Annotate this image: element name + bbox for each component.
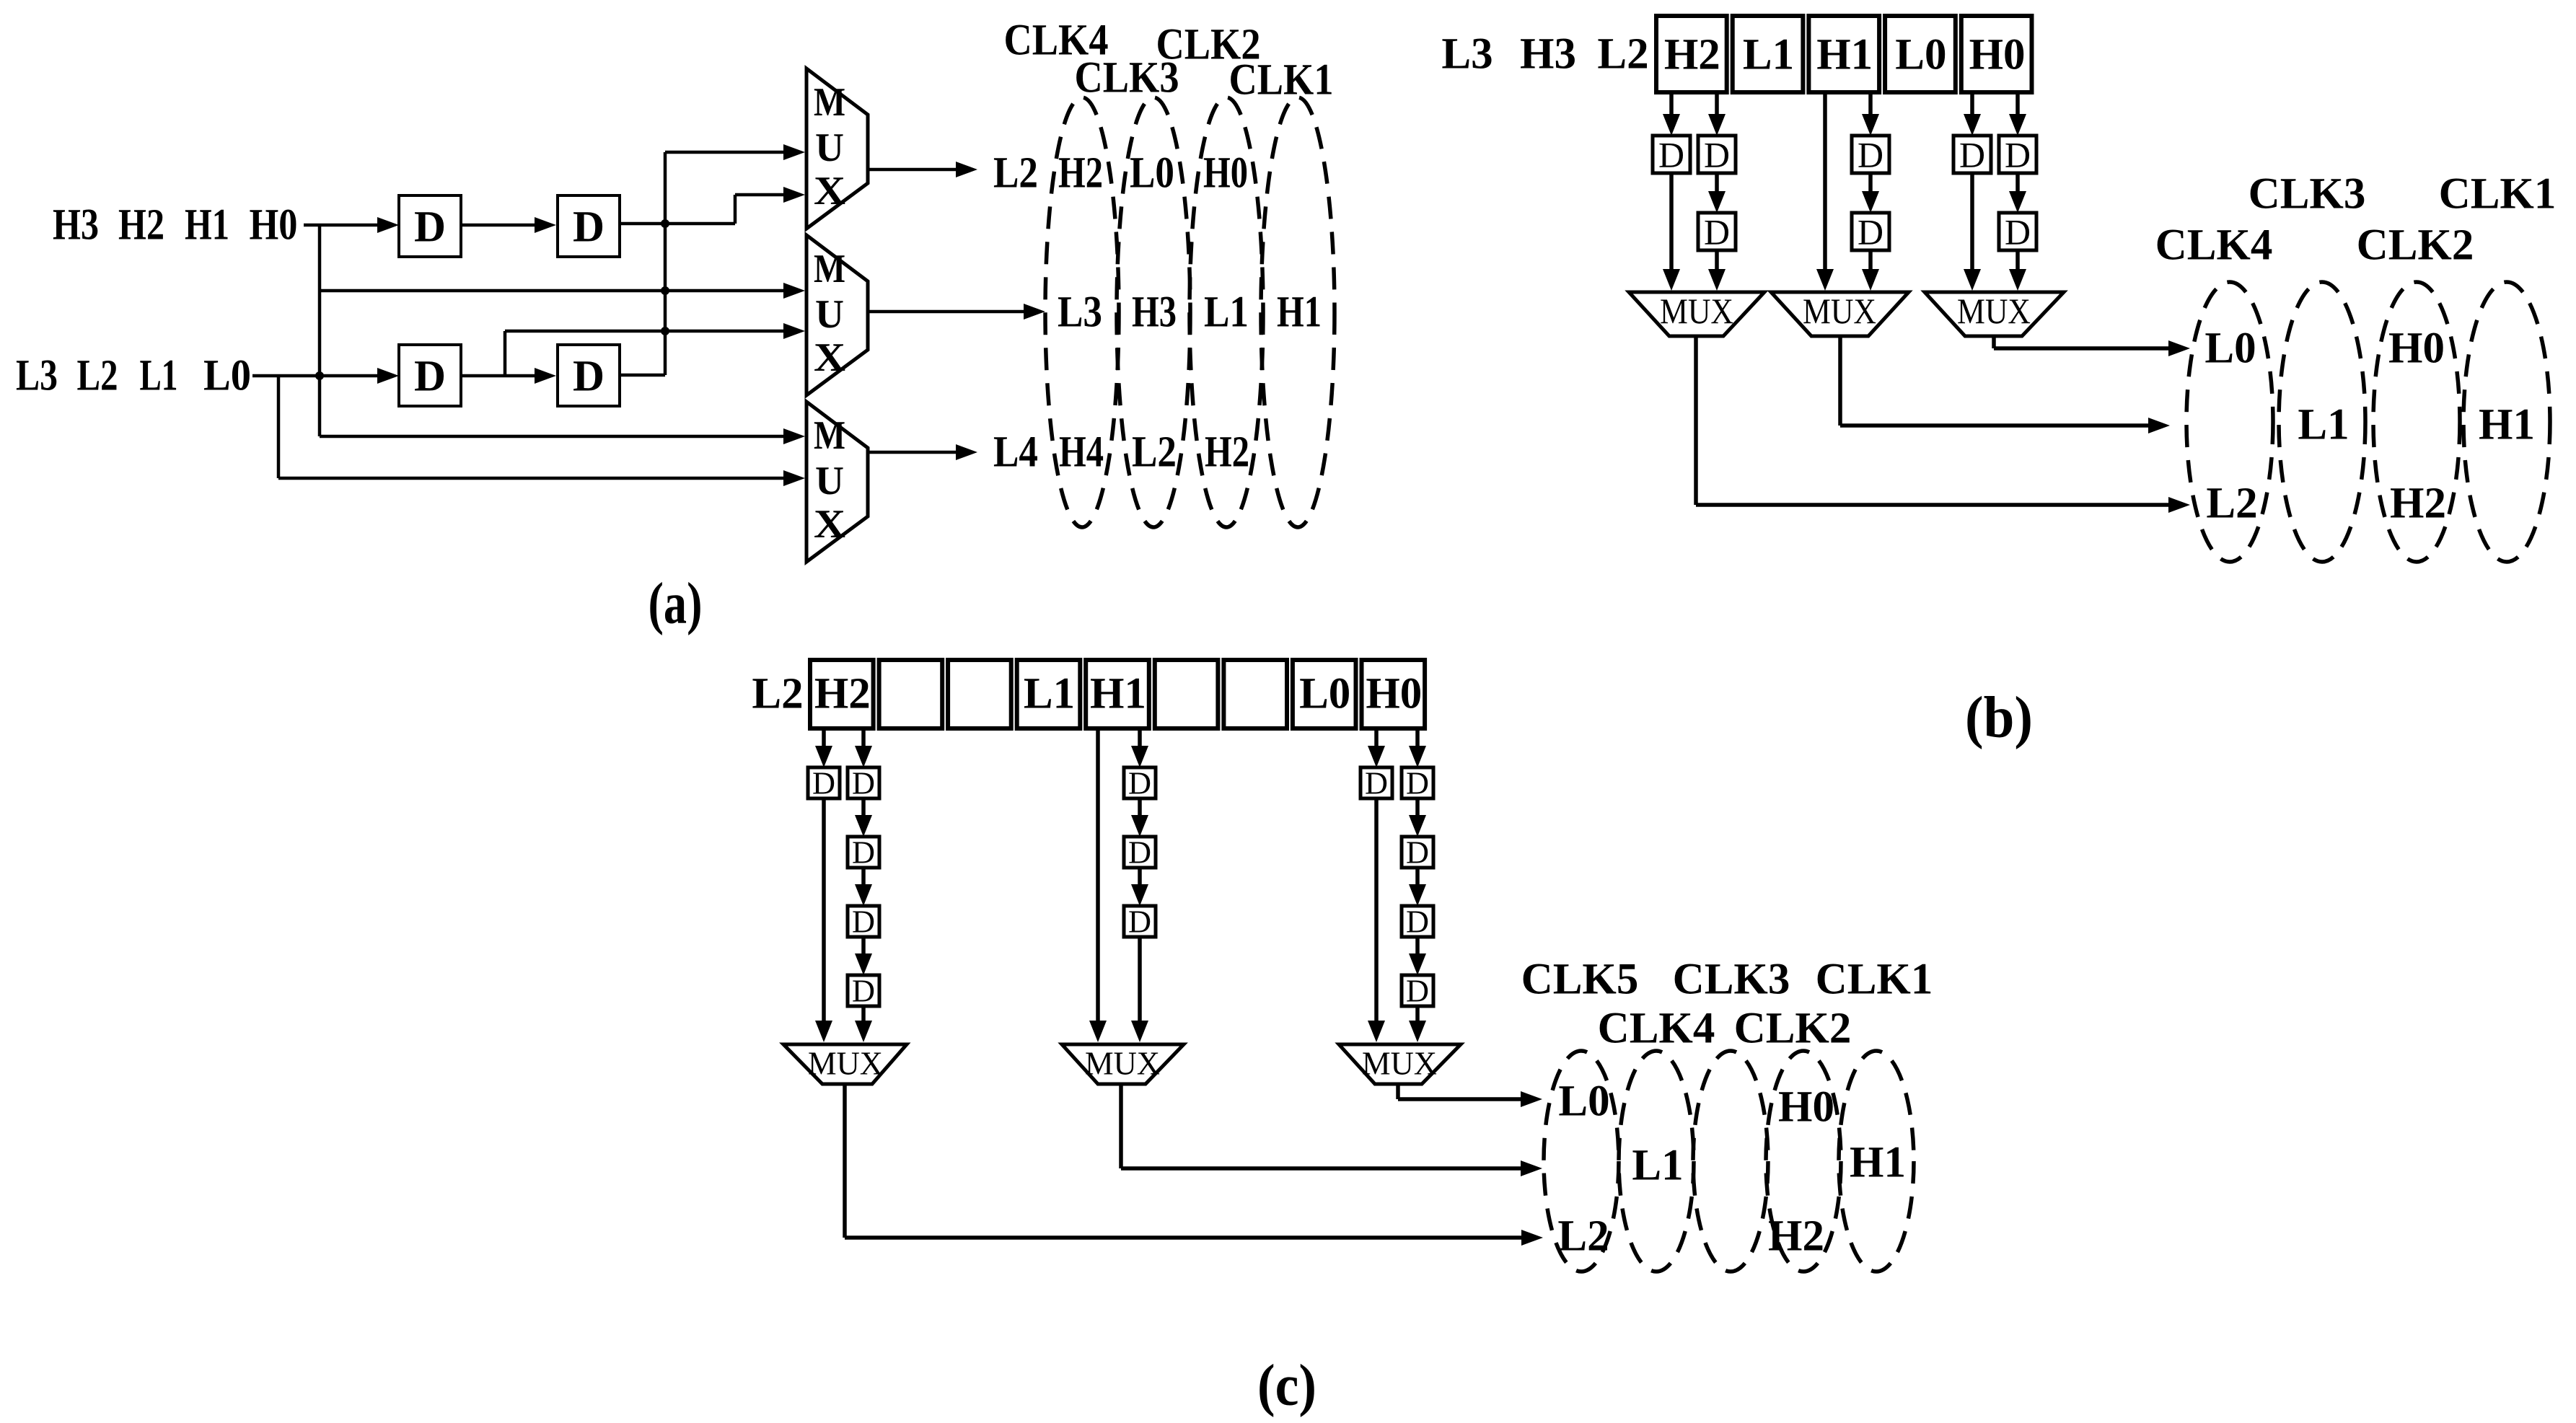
svg-text:L0: L0 xyxy=(1130,149,1174,198)
wire D flip-flop C1a1 to MUX xyxy=(815,798,832,1042)
sample label L2 part c xyxy=(1557,1212,1609,1261)
label CLK4 of part b xyxy=(2155,221,2273,270)
input bus label H3 H2 H1 H0 xyxy=(53,201,298,250)
svg-text:D: D xyxy=(852,766,875,801)
D flip-flop B1b1 xyxy=(1698,135,1736,175)
register cell L0 of part c xyxy=(1293,660,1356,728)
wire D flip-flop C1b2 to C1b3 xyxy=(855,868,872,906)
wire D flip-flop B1b1 to B1b2 xyxy=(1708,173,1726,213)
D flip-flop C3a1 xyxy=(1360,766,1392,801)
svg-text:L0: L0 xyxy=(1299,670,1350,718)
svg-text:H2: H2 xyxy=(1664,31,1720,79)
sample label H1 part c xyxy=(1850,1139,1906,1187)
svg-text:D: D xyxy=(573,203,605,252)
wire MUX C3 output to L0 row xyxy=(1398,1084,1542,1107)
svg-text:CLK2: CLK2 xyxy=(1734,1005,1852,1053)
svg-text:L2: L2 xyxy=(1132,428,1177,477)
svg-text:H4: H4 xyxy=(1059,428,1104,477)
svg-text:M: M xyxy=(814,413,845,458)
svg-text:D: D xyxy=(1406,904,1429,940)
wire D flip-flop C3a1 to MUX xyxy=(1368,798,1385,1042)
register input label L2 of part b xyxy=(1597,30,1648,79)
wire register to D flip-flop B1a1 xyxy=(1663,92,1680,136)
D flip-flop DB1 xyxy=(399,345,461,406)
svg-text:D: D xyxy=(2005,212,2031,252)
D flip-flop B2b1 xyxy=(1852,135,1889,175)
clock ellipse CLK3 of part b xyxy=(2279,282,2365,562)
svg-text:L0: L0 xyxy=(2204,325,2256,373)
mux MUXA2 xyxy=(806,235,868,395)
D flip-flop C1a1 xyxy=(808,766,840,801)
label CLK3 of part b xyxy=(2248,170,2366,219)
wire D flip-flop C3b4 to MUX xyxy=(1409,1006,1426,1042)
svg-text:U: U xyxy=(815,292,844,337)
sample label H4 row3 part a xyxy=(1059,428,1104,477)
wire DT1 to DT2 xyxy=(461,217,556,233)
label CLK2 of part a xyxy=(1156,21,1261,69)
sample label L0 row1 part a xyxy=(1130,149,1174,198)
sample label L0 part c xyxy=(1558,1078,1609,1126)
clock ellipse CLK4 of part b xyxy=(2186,282,2273,562)
svg-text:D: D xyxy=(1406,766,1429,801)
sample label H1 part b xyxy=(2479,401,2535,449)
svg-text:H2: H2 xyxy=(118,201,164,250)
clock ellipse CLK1 of part a xyxy=(1261,97,1335,527)
svg-text:L2: L2 xyxy=(752,670,803,718)
sample label H2 part c xyxy=(1768,1212,1824,1261)
svg-text:H1: H1 xyxy=(1090,670,1146,718)
input bus label L3 L2 L1 L0 xyxy=(16,352,251,400)
svg-text:(a): (a) xyxy=(649,570,703,636)
svg-text:H1: H1 xyxy=(1277,288,1322,337)
svg-text:(b): (b) xyxy=(1965,684,2033,750)
svg-text:D: D xyxy=(1128,766,1151,801)
D flip-flop C3b2 xyxy=(1402,835,1433,871)
wire D flip-flop C3b1 to C3b2 xyxy=(1409,798,1426,837)
label CLK3 of part c xyxy=(1673,956,1790,1004)
wire D flip-flop C1b1 to C1b2 xyxy=(855,798,872,837)
D flip-flop DT2 xyxy=(558,195,620,257)
label CLK4 of part c xyxy=(1598,1005,1715,1053)
svg-text:H0: H0 xyxy=(1778,1083,1834,1132)
svg-text:D: D xyxy=(1704,135,1730,175)
clock ellipse CLK3 of part a xyxy=(1117,97,1190,527)
svg-text:H0: H0 xyxy=(1366,670,1422,718)
svg-text:H2: H2 xyxy=(1058,149,1103,198)
svg-text:L2: L2 xyxy=(1557,1212,1609,1261)
sample label H0 row1 part a xyxy=(1203,149,1248,198)
sample label H2 row3 part a xyxy=(1205,428,1249,477)
svg-text:MUX: MUX xyxy=(808,1045,883,1082)
svg-text:H1: H1 xyxy=(1816,31,1873,79)
sample label L1 part c xyxy=(1632,1142,1683,1190)
caption (c) xyxy=(1257,1352,1316,1418)
svg-text:X: X xyxy=(814,502,845,547)
wire vertical branch from H line xyxy=(318,224,322,436)
svg-text:CLK1: CLK1 xyxy=(1816,956,1933,1004)
wire D flip-flop C1b3 to C1b4 xyxy=(855,937,872,975)
sample label L2 row3 part a xyxy=(1132,428,1177,477)
wire to MUX A3 input 2 xyxy=(278,470,805,486)
svg-text:H2: H2 xyxy=(2390,480,2446,528)
clock ellipse CLK5 of part c xyxy=(1544,1051,1619,1272)
wire MUX A2 output xyxy=(868,304,1045,320)
label CLK1 of part c xyxy=(1816,956,1933,1004)
wire MUX B3 output to L0 row xyxy=(1994,336,2190,356)
svg-text:H0: H0 xyxy=(1969,31,2026,79)
svg-text:D: D xyxy=(1406,974,1429,1009)
junction dot on DT2 output wire xyxy=(661,219,669,228)
wire MUX A3 output xyxy=(868,444,977,460)
register cell H2 of part b xyxy=(1656,16,1727,92)
clock ellipse CLK4 of part c xyxy=(1619,1051,1694,1272)
svg-text:D: D xyxy=(2005,135,2031,175)
svg-text:(c): (c) xyxy=(1257,1352,1316,1418)
svg-text:H3: H3 xyxy=(1132,288,1177,337)
svg-text:L1: L1 xyxy=(1024,670,1075,718)
svg-text:D: D xyxy=(852,974,875,1009)
register cell empty 6 of part c xyxy=(1223,660,1287,728)
D flip-flop B3b2 xyxy=(1999,212,2036,252)
mux MUXB3 xyxy=(1925,291,2064,336)
svg-text:D: D xyxy=(1365,766,1388,801)
svg-text:L1: L1 xyxy=(1632,1142,1683,1190)
wire register to D flip-flop C2b1 xyxy=(1131,728,1148,767)
clock ellipse CLK2 of part a xyxy=(1190,97,1263,527)
svg-text:U: U xyxy=(815,459,844,503)
wire L0 feed to D flip-flop DB1 xyxy=(252,368,399,384)
svg-text:H1: H1 xyxy=(185,201,229,250)
wire register to D flip-flop B3b1 xyxy=(2009,92,2026,136)
svg-text:L0: L0 xyxy=(1895,31,1946,79)
label CLK2 of part c xyxy=(1734,1005,1852,1053)
junction dot on MUX A2 input wire xyxy=(661,286,669,295)
register cell H2 of part c xyxy=(810,660,874,728)
register input label H3 of part b xyxy=(1520,30,1576,79)
svg-text:D: D xyxy=(1704,212,1730,252)
svg-text:D: D xyxy=(1128,904,1151,940)
D flip-flop B1a1 xyxy=(1653,135,1690,175)
clock ellipse CLK3 of part c xyxy=(1693,1051,1768,1272)
junction dot where H branch crosses L line xyxy=(315,371,324,380)
svg-text:H3: H3 xyxy=(1520,30,1576,79)
svg-text:CLK1: CLK1 xyxy=(1229,56,1334,105)
wire D flip-flop C2b1 to C2b2 xyxy=(1131,798,1148,837)
svg-text:CLK5: CLK5 xyxy=(1521,956,1639,1004)
svg-text:CLK1: CLK1 xyxy=(2439,170,2557,219)
register cell L1 of part b xyxy=(1733,16,1803,92)
svg-text:L0: L0 xyxy=(1558,1078,1609,1126)
label CLK4 of part a xyxy=(1004,17,1109,65)
D flip-flop C1b2 xyxy=(848,835,879,871)
svg-text:L3: L3 xyxy=(16,352,58,400)
junction dot on MUX A2 input 2 wire xyxy=(661,327,669,335)
wire DB1 output tap up to MUX A2 input 2 xyxy=(505,323,805,376)
sample label H3 row2 part a xyxy=(1132,288,1177,337)
svg-text:H2: H2 xyxy=(1205,428,1249,477)
wire D flip-flop B1b2 to MUX xyxy=(1708,250,1726,291)
svg-text:CLK4: CLK4 xyxy=(2155,221,2273,270)
D flip-flop C3b1 xyxy=(1402,766,1433,801)
wire D flip-flop B2b1 to B2b2 xyxy=(1862,173,1879,213)
wire MUX B2 output to L1 row xyxy=(1840,336,2170,433)
sample label L3 row2 part a xyxy=(1058,288,1102,337)
wire MUX C1 output to L2 row xyxy=(845,1084,1543,1246)
sample label H0 part c xyxy=(1778,1083,1834,1132)
wire register to D flip-flop C3a1 xyxy=(1368,728,1385,767)
svg-text:M: M xyxy=(814,247,845,291)
wire register to D flip-flop B2b1 xyxy=(1862,92,1879,136)
caption (a) xyxy=(649,570,703,636)
wire MUX C2 output to L1 row xyxy=(1121,1084,1542,1176)
label CLK3 of part a xyxy=(1075,54,1179,102)
wire D flip-flop B3b2 to MUX xyxy=(2009,250,2026,291)
svg-text:D: D xyxy=(1858,212,1883,252)
sample label L4 row3 part a xyxy=(993,428,1038,477)
svg-text:L2: L2 xyxy=(77,352,118,400)
D flip-flop DT1 xyxy=(399,195,461,257)
svg-text:H3: H3 xyxy=(53,201,99,250)
svg-text:CLK4: CLK4 xyxy=(1598,1005,1715,1053)
register input label L3 of part b xyxy=(1441,30,1493,79)
D flip-flop C2b2 xyxy=(1124,835,1156,871)
wire D flip-flop B3b1 to B3b2 xyxy=(2009,173,2026,213)
wire D flip-flop B3a1 to MUX xyxy=(1964,173,1981,291)
clock ellipse CLK2 of part b xyxy=(2373,282,2460,562)
wire D flip-flop B2b2 to MUX xyxy=(1862,250,1879,291)
wire column B2a direct to MUX xyxy=(1816,92,1834,291)
clock ellipse CLK4 of part a xyxy=(1045,97,1119,527)
svg-text:CLK3: CLK3 xyxy=(2248,170,2366,219)
svg-text:U: U xyxy=(815,125,844,170)
register input label L2 of part c xyxy=(752,670,803,718)
mux MUXC3 xyxy=(1339,1044,1461,1084)
D flip-flop B1b2 xyxy=(1698,212,1736,252)
D flip-flop C3b3 xyxy=(1402,904,1433,940)
D flip-flop C2b3 xyxy=(1124,904,1156,940)
wire register to D flip-flop B1b1 xyxy=(1708,92,1726,136)
D flip-flop C1b1 xyxy=(848,766,879,801)
svg-text:L3: L3 xyxy=(1058,288,1102,337)
clock ellipse CLK1 of part c xyxy=(1839,1051,1914,1272)
mux MUXA1 xyxy=(806,69,868,229)
wire D flip-flop C3b2 to C3b3 xyxy=(1409,868,1426,906)
svg-text:D: D xyxy=(414,203,446,252)
svg-text:L4: L4 xyxy=(993,428,1038,477)
wire D flip-flop C2b2 to C2b3 xyxy=(1131,868,1148,906)
svg-text:L2: L2 xyxy=(1597,30,1648,79)
svg-text:L0: L0 xyxy=(203,352,251,400)
svg-text:L1: L1 xyxy=(2298,401,2349,449)
svg-text:MUX: MUX xyxy=(1085,1045,1160,1082)
svg-text:H2: H2 xyxy=(1768,1212,1824,1261)
sample label L2 row1 part a xyxy=(993,149,1038,198)
D flip-flop DB2 xyxy=(558,345,620,406)
wire register to D flip-flop C1b1 xyxy=(855,728,872,767)
wire to MUX A3 input 1 xyxy=(320,428,805,444)
register cell empty 1 of part c xyxy=(879,660,943,728)
label CLK1 of part b xyxy=(2439,170,2557,219)
svg-text:D: D xyxy=(852,835,875,871)
svg-text:CLK2: CLK2 xyxy=(2357,221,2474,270)
register cell empty 5 of part c xyxy=(1155,660,1218,728)
sample label L2 part b xyxy=(2206,480,2257,528)
svg-text:L2: L2 xyxy=(993,149,1038,198)
sample label H2 part b xyxy=(2390,480,2446,528)
svg-text:H0: H0 xyxy=(1203,149,1248,198)
register cell H1 of part b xyxy=(1808,16,1879,92)
wire MUX A1 output xyxy=(868,162,977,177)
svg-text:D: D xyxy=(1959,135,1985,175)
svg-text:H1: H1 xyxy=(2479,401,2535,449)
svg-text:D: D xyxy=(1128,835,1151,871)
svg-text:H2: H2 xyxy=(814,670,871,718)
label CLK1 of part a xyxy=(1229,56,1334,105)
mux MUXA3 xyxy=(806,402,868,562)
wire DB2 output riser to MUX A1 input 1 xyxy=(620,144,805,375)
svg-text:MUX: MUX xyxy=(1660,291,1733,331)
register cell H0 of part c xyxy=(1362,660,1425,728)
D flip-flop B2b2 xyxy=(1852,212,1889,252)
svg-text:L2: L2 xyxy=(2206,480,2257,528)
mux MUXC1 xyxy=(783,1044,907,1084)
D flip-flop C1b3 xyxy=(848,904,879,940)
label CLK5 of part c xyxy=(1521,956,1639,1004)
wire D flip-flop C2b3 to MUX xyxy=(1131,937,1148,1042)
svg-text:L1: L1 xyxy=(1204,288,1249,337)
D flip-flop B3b1 xyxy=(1999,135,2036,175)
svg-text:H0: H0 xyxy=(2388,325,2445,373)
sample label H0 part b xyxy=(2388,325,2445,373)
sample label L1 part b xyxy=(2298,401,2349,449)
wire DT2 output with step to MUX A1 input 2 xyxy=(620,187,805,224)
wire D flip-flop C1b4 to MUX xyxy=(855,1006,872,1042)
wire register to D flip-flop C3b1 xyxy=(1409,728,1426,767)
svg-text:X: X xyxy=(814,335,845,380)
D flip-flop C1b4 xyxy=(848,974,879,1009)
register cell H1 of part c xyxy=(1086,660,1149,728)
mux MUXC2 xyxy=(1062,1044,1184,1084)
wire MUX B1 output to L2 row xyxy=(1696,336,2190,513)
svg-text:D: D xyxy=(1658,135,1684,175)
clock ellipse CLK2 of part c xyxy=(1766,1051,1841,1272)
wire register to D flip-flop B3a1 xyxy=(1964,92,1981,136)
sample label H2 row1 part a xyxy=(1058,149,1103,198)
svg-text:D: D xyxy=(1406,835,1429,871)
svg-text:H1: H1 xyxy=(1850,1139,1906,1187)
wire column C2a direct to MUX xyxy=(1089,728,1107,1042)
svg-text:M: M xyxy=(814,80,845,125)
svg-text:H0: H0 xyxy=(250,201,298,250)
sample label H1 row2 part a xyxy=(1277,288,1322,337)
register cell H0 of part b xyxy=(1961,16,2032,92)
label CLK2 of part b xyxy=(2357,221,2474,270)
mux MUXB1 xyxy=(1629,291,1764,336)
svg-text:D: D xyxy=(414,353,446,401)
svg-text:D: D xyxy=(812,766,835,801)
caption (b) xyxy=(1965,684,2033,750)
wire register to D flip-flop C1a1 xyxy=(815,728,832,767)
svg-text:MUX: MUX xyxy=(1803,291,1876,331)
svg-text:MUX: MUX xyxy=(1957,291,2031,331)
svg-text:D: D xyxy=(573,353,605,401)
wire D flip-flop C3b3 to C3b4 xyxy=(1409,937,1426,975)
svg-text:MUX: MUX xyxy=(1362,1045,1437,1082)
register cell L1 of part c xyxy=(1017,660,1081,728)
D flip-flop B3a1 xyxy=(1953,135,1991,175)
register cell empty 2 of part c xyxy=(948,660,1011,728)
D flip-flop C2b1 xyxy=(1124,766,1156,801)
wire vertical branch from L line xyxy=(277,376,281,478)
svg-text:D: D xyxy=(852,904,875,940)
clock ellipse CLK1 of part b xyxy=(2463,282,2550,562)
svg-text:CLK3: CLK3 xyxy=(1673,956,1790,1004)
svg-text:L1: L1 xyxy=(1743,31,1794,79)
svg-text:X: X xyxy=(814,169,845,213)
wire to MUX A2 input 1 xyxy=(320,283,805,299)
svg-text:L3: L3 xyxy=(1441,30,1493,79)
register cell L0 of part b xyxy=(1885,16,1956,92)
mux MUXB2 xyxy=(1771,291,1909,336)
svg-text:D: D xyxy=(1858,135,1883,175)
wire DB1 to DB2 xyxy=(461,368,556,384)
sample label L0 part b xyxy=(2204,325,2256,373)
wire H0 feed to D flip-flop DT1 xyxy=(304,217,399,233)
wire D flip-flop B1a1 to MUX xyxy=(1663,173,1680,291)
D flip-flop C3b4 xyxy=(1402,974,1433,1009)
sample label L1 row2 part a xyxy=(1204,288,1249,337)
svg-text:L1: L1 xyxy=(140,352,178,400)
